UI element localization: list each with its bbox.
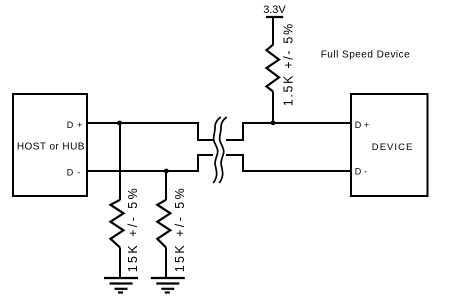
host box: [13, 94, 87, 196]
resistor R3 15K zigzag: [157, 200, 170, 248]
wire D- to resistor R3: [165, 171, 167, 200]
svg-text:D +: D +: [67, 120, 83, 130]
wire R3 to ground: [165, 248, 167, 279]
ground symbol G1: [104, 278, 138, 293]
resistor R2 15K zigzag: [111, 200, 124, 248]
resistor R1 1.5K pull-up zigzag: [267, 45, 280, 92]
svg-text:D -: D -: [67, 168, 81, 178]
wire D+ to resistor R2: [119, 123, 121, 200]
svg-text:DEVICE: DEVICE: [372, 142, 413, 153]
cable break squiggle left: [213, 117, 221, 183]
wire D- device segment: [226, 155, 351, 171]
svg-text:3.3V: 3.3V: [263, 4, 286, 16]
svg-text:Full Speed Device: Full Speed Device: [321, 49, 410, 60]
svg-text:D +: D +: [355, 120, 370, 130]
cable break squiggle right: [219, 117, 227, 183]
wire R2 to ground: [119, 248, 121, 279]
ground symbol G2: [151, 278, 185, 293]
svg-text:HOST or HUB: HOST or HUB: [17, 141, 85, 152]
wire D+ host segment: [88, 123, 213, 140]
wire D- host segment: [88, 155, 213, 171]
svg-text:D -: D -: [355, 167, 367, 177]
junction dot on D+ at pull-up: [271, 120, 276, 125]
3.3V supply bar: [266, 16, 283, 18]
wire R1 to D+: [272, 92, 274, 124]
junction dot on D+ at host-side resistor: [117, 121, 122, 126]
device box: [351, 94, 428, 196]
wire D+ device segment: [226, 123, 351, 140]
wire 3.3V to resistor R1: [272, 17, 274, 45]
junction dot on D- at second resistor: [164, 169, 169, 174]
